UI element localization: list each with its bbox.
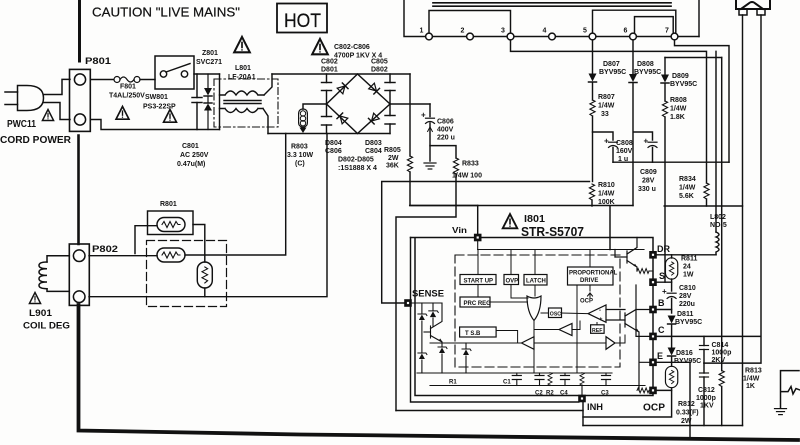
svg-text:C812: C812 [698,387,715,394]
svg-text:C4: C4 [560,391,568,397]
wire corner into INH run [411,238,579,403]
svg-text:330 u: 330 u [638,186,656,193]
HOT box [277,4,327,33]
svg-text:D816: D816 [676,350,693,357]
svg-text:CAUTION "LIVE MAINS": CAUTION "LIVE MAINS" [92,6,240,20]
IC internal dashed box [455,255,620,367]
ovp block [504,275,519,285]
svg-text:B: B [658,298,665,308]
svg-text:C3: C3 [601,391,609,397]
capacitor C806 [429,104,431,117]
power plug PWC11 [5,86,44,111]
svg-text:220 u: 220 u [437,135,455,142]
svg-text:+: + [604,137,609,146]
svg-text:OSC: OSC [550,312,561,318]
OR gate [527,296,541,321]
pin OCP [650,387,657,394]
wire P801 upper to fuse [90,79,113,81]
varistor Z801 [207,74,209,130]
svg-text:D808: D808 [637,61,654,68]
pin Vin [474,234,481,241]
svg-text:28V: 28V [679,293,692,300]
wire fuse to switch [140,79,155,81]
svg-text:C802-C806: C802-C806 [334,44,370,51]
svg-text:R810: R810 [598,182,615,189]
border frame top-left vertical [78,0,81,61]
pin 4 [549,33,556,40]
right edge jack component [781,371,800,408]
svg-text:OCP: OCP [580,299,593,305]
Vin rail [410,206,633,250]
svg-text:COIL DEG: COIL DEG [23,321,70,332]
INH pin drop to border [582,402,584,426]
INH resistor [580,373,584,386]
OCP wire [656,389,671,391]
wire P801 lower to bottom rail [90,120,219,130]
resistor R813 [719,371,724,387]
svg-text:-: - [599,308,601,314]
resistor R803 [303,104,327,109]
thermistor R801b [157,248,185,262]
pin 7 [671,33,678,40]
leg1 thermal protector [742,15,744,426]
svg-text:36K: 36K [386,163,399,170]
svg-text:P801: P801 [85,56,112,67]
svg-text:R801: R801 [160,201,177,208]
wire P802 to R801b [89,255,157,257]
amp triangle 2 [559,323,572,335]
wire plug to P801 lower [44,103,71,120]
svg-text:T4AL/250V: T4AL/250V [109,93,145,100]
pin INH [579,395,586,402]
wire D808 to C809 [633,83,653,206]
diode D809 [664,58,666,75]
svg-text:3: 3 [501,28,505,35]
wire R801a left jog [135,226,157,254]
bottom link line [583,425,743,427]
svg-text:BYV95C: BYV95C [634,69,661,76]
R2 small [548,373,552,386]
pin B [650,306,657,313]
svg-text:R807: R807 [598,94,615,101]
svg-text:L801: L801 [235,65,251,72]
transformer T801 core lines [433,2,671,4]
svg-text:C808: C808 [616,140,633,147]
svg-text:SW801: SW801 [145,94,168,101]
latch block [524,275,547,286]
svg-text:DRIVE: DRIVE [580,278,598,284]
svg-text:7: 7 [665,28,669,35]
diode D808 [629,74,637,83]
fuse F801 [114,77,140,83]
svg-text:C2: C2 [535,391,543,397]
svg-text:INH: INH [587,402,603,412]
capacitor C814 [703,336,705,345]
svg-text:T S.B: T S.B [465,331,481,337]
svg-text:4: 4 [543,28,547,35]
svg-text:PWC11: PWC11 [7,119,36,130]
svg-text:+: + [662,287,667,296]
wire switch to line filter [194,73,220,75]
pin 1 [426,33,433,40]
stair wire to SENSE [382,182,590,304]
svg-text:(C): (C) [295,161,305,168]
degaussing coil L901 [39,256,69,292]
IC I801 outer box [411,238,654,396]
svg-text:R834: R834 [679,176,696,183]
wire rail up at right / R813 column [721,58,723,371]
svg-text:28V: 28V [642,178,655,185]
fusible resistor R812 [671,362,673,366]
pin 5 [589,33,596,40]
svg-text:C810: C810 [679,285,696,292]
border frame bottom [79,305,799,440]
svg-text:0.33(F): 0.33(F) [676,410,699,417]
resistor R834 [704,183,709,199]
svg-text:2W: 2W [681,418,692,425]
svg-text:REF: REF [592,328,602,334]
svg-text:2W: 2W [388,155,399,162]
DR wire to L802 [656,254,716,256]
svg-text:1/4W: 1/4W [679,185,696,192]
svg-text:BYV95C: BYV95C [670,81,697,88]
AC top rail to bridge [272,73,410,75]
svg-text:L901: L901 [29,308,53,319]
tsb block [460,327,497,337]
warning triangle plug [42,110,53,121]
capacitor C801 [192,74,202,130]
svg-text:SENSE: SENSE [412,289,444,300]
svg-text:+: + [599,317,603,323]
svg-text:220u: 220u [679,301,695,308]
svg-text:R2: R2 [546,391,554,397]
svg-text:R811: R811 [681,256,697,263]
wire C806 to R833 [430,146,456,158]
pin DR [650,251,657,258]
capacitor C810 [667,293,676,298]
svg-text:P802: P802 [92,244,118,255]
svg-text:BYV95C: BYV95C [675,319,702,326]
svg-text:R812: R812 [678,401,695,408]
capacitor C808 [593,132,614,140]
svg-text:+: + [644,137,649,146]
amp triangle 3 [522,337,535,350]
svg-text:R805: R805 [384,147,401,154]
Vin pin drop [477,206,479,235]
winding loop pins 6-7 [635,17,674,33]
ground right [775,409,787,415]
svg-text:STR-S5707: STR-S5707 [521,225,584,239]
svg-text:OVP: OVP [506,279,519,285]
svg-text:AC 250V: AC 250V [180,152,209,159]
svg-text:D803: D803 [365,140,382,147]
svg-text:1/4W: 1/4W [598,191,615,198]
capacitor C802 [322,83,332,91]
wire L802 column from drive net [715,51,717,232]
svg-text:1.8K: 1.8K [670,114,685,121]
thermal protector top right [736,0,770,15]
svg-text:D802: D802 [371,67,388,74]
fusible resistor R811 [671,255,673,258]
svg-text:160V: 160V [616,148,633,155]
svg-text:S: S [659,271,665,281]
svg-text:L802: L802 [710,214,726,221]
svg-text:R813: R813 [745,368,762,375]
wire pin6 to D808 [632,40,634,74]
svg-text:C: C [658,325,665,335]
svg-text:5: 5 [583,28,587,35]
svg-text:D809: D809 [672,73,689,80]
R801 dashed box [147,241,227,307]
REF block [591,325,605,334]
svg-text:DR: DR [657,244,670,254]
svg-text:E: E [657,351,663,361]
svg-text:Vin: Vin [452,225,467,235]
svg-text:1000p: 1000p [696,395,716,402]
amp triangle 4 [606,337,615,350]
internal ground rail [430,385,645,387]
svg-text:LATCH: LATCH [526,279,546,285]
pin 3 [507,33,514,40]
svg-text:I801: I801 [524,214,545,225]
capacitor C804 [385,116,395,125]
svg-text:BYV95C: BYV95C [599,69,626,76]
svg-text:R803: R803 [291,144,308,151]
svg-text:1KV: 1KV [700,403,714,410]
svg-text::1S1888 X 4: :1S1888 X 4 [338,165,377,172]
svg-text:0.47u(M): 0.47u(M) [177,161,205,168]
svg-text:5.6K: 5.6K [679,193,694,200]
svg-text:C802: C802 [321,59,338,66]
svg-text:C804: C804 [365,148,382,155]
capacitor C806b [322,117,332,126]
diode D804 bottom-left arm [337,113,348,124]
thick vertical wire P801 to P802 [77,136,80,244]
svg-text:D807: D807 [603,61,620,68]
E drop to return [689,362,691,436]
diode D811 [668,316,676,325]
resistor R807 [592,83,594,101]
svg-text:CORD POWER: CORD POWER [0,134,71,146]
wire pin5 to D807 [592,40,594,73]
wire AC rail down to degauss bottom [89,134,327,297]
winding loop pins 1-3 [429,11,511,34]
proportional drive block [568,267,614,285]
svg-text:C801: C801 [182,143,199,150]
svg-text:BYV95C: BYV95C [674,358,701,365]
svg-text:1/4W: 1/4W [670,106,687,113]
svg-text:Z801: Z801 [202,50,218,57]
start up block [460,275,496,285]
svg-text:PROPORTIONAL: PROPORTIONAL [569,271,618,277]
pin 2 [467,33,474,40]
pin SENSE [405,300,412,307]
svg-text:C809: C809 [640,169,657,176]
B wire [656,309,671,311]
L801 windings [220,74,273,134]
svg-text:1/4W: 1/4W [743,376,760,383]
capacitor C805 [385,83,395,91]
svg-text:1: 1 [420,28,424,35]
resistor R833 [453,158,458,174]
resistor R808 [664,84,666,102]
output transistor Q2 [606,285,650,390]
svg-text:+: + [421,111,426,120]
bridge rectifier D802-D805 diamond [327,74,391,134]
svg-text:6: 6 [624,28,628,35]
svg-text:C814: C814 [712,342,729,349]
diode D807 [589,74,597,83]
S wire [656,281,671,283]
comparator triangle [588,305,606,322]
connector P802 [69,244,89,305]
T801 primary lead left [404,0,426,37]
svg-text:1000p: 1000p [712,350,732,357]
svg-text:F801: F801 [120,84,136,91]
diode D816 [671,336,673,347]
wire pin7 down and right [675,40,730,162]
pin S [650,279,657,286]
svg-text:400V: 400V [437,127,454,134]
C808/C809 bottom rail [613,161,729,163]
wire R807 down to C808 junction [592,116,594,182]
C wire [656,15,761,363]
line filter L801 dashed box [214,79,278,127]
svg-text:HOT: HOT [284,11,321,32]
capacitor C812 [703,363,705,373]
svg-text:PRC REG: PRC REG [464,301,492,307]
svg-text:1/4W 100: 1/4W 100 [452,173,482,180]
switch SW801 [155,56,194,89]
svg-text:C1: C1 [503,380,511,386]
svg-text:D801: D801 [321,67,338,74]
svg-text:3.3 10W: 3.3 10W [287,152,313,159]
svg-text:R1: R1 [449,380,457,386]
svg-text:2: 2 [461,28,465,35]
winding loop pins 5-7 [593,10,676,33]
AC bottom rail to bridge [268,133,390,135]
internal top rail [478,249,644,251]
svg-text:1W: 1W [683,272,694,279]
svg-text:C806: C806 [437,119,454,126]
internal wires left [430,285,625,374]
svg-text:1/4W: 1/4W [598,103,615,110]
DC+ wire bridge to C806 [390,103,430,105]
diode D802 top-right arm [369,83,380,94]
svg-text:24: 24 [683,264,691,271]
drive transistor Q1 [615,238,637,272]
svg-text:1K: 1K [746,383,755,390]
svg-text:D802-D805: D802-D805 [338,157,374,164]
svg-text:R833: R833 [462,161,479,168]
resistor R810 [589,184,594,200]
wire plug to P801 upper [44,79,71,94]
diode D803 bottom-right arm [368,113,379,124]
thermistor R801c vertical [197,262,212,288]
startup resistor R805 [409,74,411,156]
svg-text:PS3-22SP: PS3-22SP [143,104,176,111]
wire AC rail down to degauss middle [185,134,286,256]
svg-text:OCP: OCP [643,403,665,414]
svg-text:C805: C805 [371,59,388,66]
E wire [656,361,690,363]
pin C [650,333,657,340]
svg-text:START UP: START UP [464,279,494,285]
svg-text:NO-5: NO-5 [710,222,727,229]
prc reg block [460,297,490,307]
svg-text:33: 33 [601,111,609,118]
sense input circuit [411,303,612,373]
thermistor R801a [157,218,185,232]
svg-text:LF-20A1: LF-20A1 [228,74,256,81]
ground below C806 [424,163,436,169]
pin 6 [630,33,637,40]
capacitor C809 [648,142,657,147]
OSC block [549,308,562,318]
OCP sense resistor [637,388,649,393]
svg-text:SVC271: SVC271 [196,59,222,66]
connector P801 [70,69,91,131]
T801 pin row wire [432,0,699,37]
R801 solid loop box [148,211,194,235]
wire pin3 down and right (to L802 drive net) [511,40,707,183]
svg-text:R808: R808 [670,97,687,104]
wire R801a right drop [193,225,205,263]
svg-text:2KV: 2KV [712,357,726,364]
diode D801 top-left arm [337,83,348,94]
svg-text:D811: D811 [677,311,693,318]
pin E [650,359,657,366]
